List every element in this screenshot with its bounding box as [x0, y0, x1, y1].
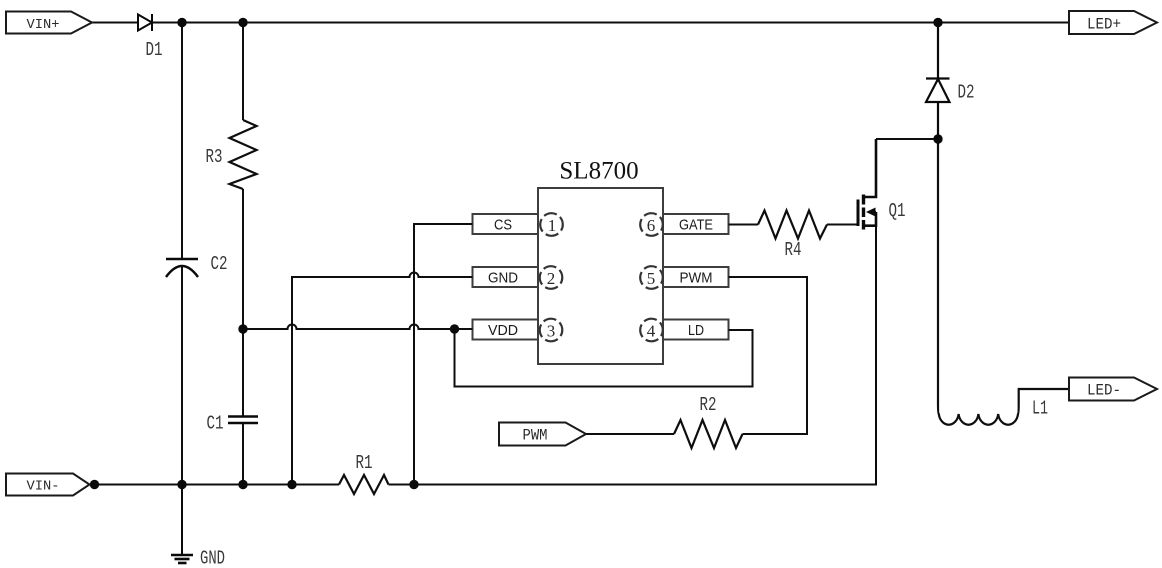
- pin box LD: [663, 320, 729, 340]
- pin 3 dashed circle: [540, 319, 563, 342]
- resistor R4: [758, 211, 827, 239]
- svg-text:5: 5: [647, 269, 656, 288]
- wire x243 mid: [242, 189, 244, 417]
- capacitor C2: [166, 259, 198, 277]
- terminal PWM: [499, 423, 586, 446]
- svg-text:LED-: LED-: [1087, 382, 1121, 400]
- wire bottom rail left: [90, 484, 340, 486]
- resistor R1: [339, 475, 389, 494]
- inductor L1: [938, 139, 1069, 425]
- wire CS net: [414, 224, 473, 485]
- wire D2 junction to Q1 drain: [876, 138, 938, 140]
- terminal LED+: [1069, 11, 1157, 34]
- terminal VIN-: [6, 474, 90, 496]
- svg-text:GATE: GATE: [679, 217, 713, 234]
- IC U1 SL8700 body: [538, 188, 663, 364]
- svg-text:LED+: LED+: [1087, 16, 1121, 34]
- wire GATE to R4: [729, 224, 759, 226]
- svg-text:D2: D2: [958, 82, 975, 104]
- pin box CS: [473, 214, 539, 234]
- junction dot rail 292: [287, 480, 296, 489]
- svg-text:R4: R4: [785, 239, 802, 261]
- wire x243 top: [242, 23, 244, 121]
- svg-text:R2: R2: [700, 394, 717, 416]
- ground: [171, 485, 193, 564]
- resistor R3: [230, 120, 257, 189]
- svg-text:VDD: VDD: [488, 322, 518, 339]
- wire left vertical x182 bottom: [181, 266, 183, 485]
- diode D2: [926, 23, 950, 140]
- junction dot VDD left: [238, 324, 247, 333]
- wire LD feedback: [455, 329, 753, 387]
- terminal LED-: [1069, 378, 1157, 401]
- pin 4 dashed circle: [640, 319, 663, 342]
- wire bottom rail right: [389, 484, 878, 486]
- svg-text:R3: R3: [206, 146, 223, 168]
- pin 5 dashed circle: [640, 266, 663, 289]
- svg-text:VIN+: VIN+: [27, 17, 60, 33]
- wire GND net with hop: [292, 273, 473, 485]
- svg-text:1: 1: [548, 216, 557, 235]
- svg-text:6: 6: [647, 216, 656, 235]
- transistor Q1: [858, 139, 876, 485]
- pin box GATE: [663, 214, 729, 234]
- junction dot VIN-: [90, 480, 99, 489]
- junction dot top rail 938: [933, 18, 942, 27]
- wire VDD net with hops: [243, 325, 473, 330]
- svg-text:GND: GND: [200, 548, 225, 568]
- wire x243 bottom: [242, 423, 244, 485]
- pin 6 dashed circle: [640, 213, 663, 236]
- wire left vertical x182 top: [181, 23, 183, 260]
- svg-text:CS: CS: [494, 217, 512, 234]
- terminal VIN+: [6, 12, 92, 34]
- wire top rail: [92, 22, 138, 24]
- svg-text:L1: L1: [1032, 398, 1048, 420]
- junction dot rail 414: [409, 480, 418, 489]
- svg-text:Q1: Q1: [889, 200, 906, 222]
- svg-text:D1: D1: [146, 39, 163, 61]
- junction dot top rail 243: [238, 18, 247, 27]
- junction dot D2/Q1: [933, 134, 942, 143]
- svg-text:R1: R1: [356, 452, 373, 474]
- pin box VDD: [473, 320, 539, 340]
- pin box PWM: [663, 267, 729, 287]
- svg-text:C2: C2: [211, 253, 228, 275]
- diode D1: [138, 14, 152, 31]
- pin 2 dashed circle: [540, 266, 563, 289]
- wire R2 to PWM pin: [729, 277, 808, 434]
- junction dot rail 182: [177, 480, 186, 489]
- svg-text:C1: C1: [207, 413, 224, 435]
- resistor R2: [674, 420, 743, 448]
- svg-text:PWM: PWM: [523, 427, 548, 445]
- svg-text:GND: GND: [488, 270, 518, 287]
- pin box GND: [473, 267, 539, 287]
- svg-text:SL8700: SL8700: [559, 158, 638, 185]
- svg-text:4: 4: [647, 322, 656, 341]
- svg-text:PWM: PWM: [680, 270, 713, 287]
- junction dot top rail 182: [177, 18, 186, 27]
- junction dot rail 243: [238, 480, 247, 489]
- svg-text:3: 3: [547, 322, 556, 341]
- svg-text:VIN-: VIN-: [27, 479, 60, 495]
- wire top rail D1 to LED+: [152, 22, 1069, 24]
- wire R4 to gate: [827, 224, 857, 226]
- wire PWM flag to R2: [586, 433, 674, 435]
- svg-text:LD: LD: [688, 322, 704, 339]
- svg-text:2: 2: [547, 269, 556, 288]
- capacitor C1: [228, 417, 258, 424]
- junction dot VDD feedback: [450, 324, 459, 333]
- pin 1 dashed circle: [540, 213, 563, 236]
